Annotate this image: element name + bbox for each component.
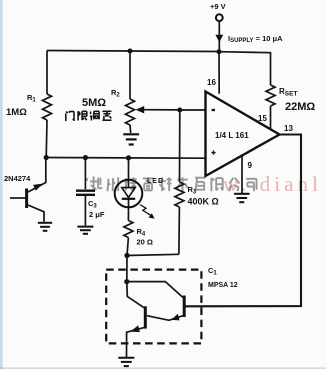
svg-text:1MΩ: 1MΩ <box>6 107 27 118</box>
svg-text:9: 9 <box>248 161 253 170</box>
junction R2 top <box>128 49 133 54</box>
terminal +9V circle <box>216 14 223 21</box>
junction LED top <box>126 155 131 160</box>
arrow Isupply <box>215 35 223 42</box>
svg-text:1/4 L 161: 1/4 L 161 <box>215 131 249 140</box>
ground darlington <box>118 357 134 359</box>
svg-text:22MΩ: 22MΩ <box>285 101 315 113</box>
op-amp plus mark <box>211 152 215 154</box>
wire R3 bottom to node <box>127 254 179 255</box>
watermark gray dot <box>85 178 88 181</box>
wire pin9 <box>241 155 243 193</box>
resistor R2 potentiometer <box>129 51 131 99</box>
svg-text:+9 V: +9 V <box>210 2 226 11</box>
collector Q-right <box>184 305 301 307</box>
wire to Rset <box>219 52 271 85</box>
junction wiper <box>177 108 182 113</box>
svg-text:LED: LED <box>147 178 164 185</box>
transistor Q-left bar <box>144 306 147 328</box>
wire top bus <box>47 51 219 52</box>
watermark chinese company text <box>90 177 257 193</box>
junction C3 top <box>83 155 88 160</box>
emitter Q-left <box>127 328 145 357</box>
svg-text:2 μF: 2 μF <box>89 210 105 219</box>
wire plus input <box>180 109 206 111</box>
svg-text:400K Ω: 400K Ω <box>188 197 219 207</box>
wire pin16 <box>218 52 220 94</box>
svg-text:w. dianl: w. dianl <box>223 172 322 196</box>
capacitor C3 <box>84 158 86 190</box>
junction R1 bottom <box>44 155 49 160</box>
wire Rset to pin15 <box>270 106 272 128</box>
scan edge stripe <box>0 0 3 369</box>
pot wiper arrow <box>142 109 180 111</box>
op-amp U1 1/4 L161 <box>206 92 280 177</box>
wire collector Q-left <box>127 282 144 308</box>
svg-text:2N4274: 2N4274 <box>4 174 31 183</box>
svg-text:MPSA 12: MPSA 12 <box>208 282 238 289</box>
resistor R1 <box>46 51 48 95</box>
ground C3 <box>77 226 93 228</box>
svg-text:5MΩ: 5MΩ <box>82 97 106 109</box>
wire LED top <box>128 158 130 180</box>
resistor R3 <box>175 182 184 207</box>
svg-text:20 Ω: 20 Ω <box>137 238 153 247</box>
emitter Q-right to base Q-left <box>147 316 183 321</box>
op-amp minus mark <box>212 109 215 111</box>
wire plus-node to R3 <box>179 110 181 182</box>
svg-text:15: 15 <box>258 114 267 123</box>
dashed box Q1 outline <box>106 270 201 344</box>
wire into darlington <box>126 256 128 282</box>
junction R4 R3 darlington <box>124 253 129 258</box>
svg-text:16: 16 <box>207 78 216 87</box>
wire supply <box>218 21 220 51</box>
transistor 2N4274 <box>10 197 25 199</box>
wire input bus <box>46 157 205 160</box>
ground pin9 <box>234 193 250 195</box>
LED light arrow <box>140 205 151 216</box>
junction supply <box>217 49 222 54</box>
wire pin13 output <box>186 135 302 307</box>
transistor Q-right bar <box>183 296 186 318</box>
resistor Rset <box>266 85 275 106</box>
junction darlington input <box>124 279 129 284</box>
ground 2N4274 <box>38 222 52 224</box>
label threshold-adjust chinese <box>66 111 112 121</box>
svg-text:13: 13 <box>284 124 293 133</box>
ground R2 <box>123 133 139 135</box>
LED diode symbol <box>128 180 130 188</box>
scan bottom streak <box>0 367 326 369</box>
wire base Q-right <box>127 282 183 298</box>
LED circle <box>115 180 143 208</box>
resistor R4 <box>127 207 129 220</box>
